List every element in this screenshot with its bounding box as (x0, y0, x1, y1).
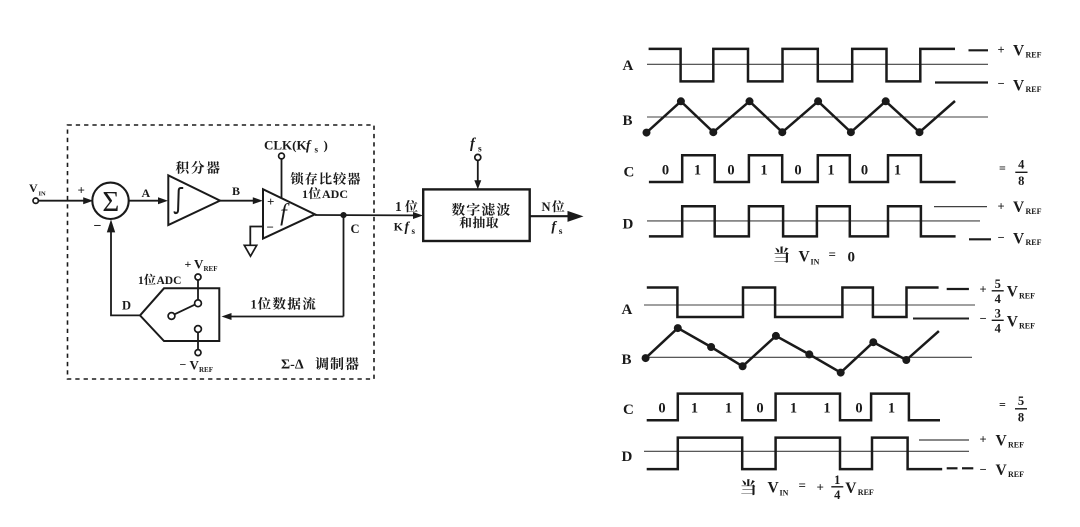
label +5/4 VREF for A2 (980, 277, 1036, 306)
trace D1 DAC output wave (649, 206, 956, 236)
caption: when VIN = 0 (774, 246, 855, 266)
trace B1 label (623, 113, 633, 129)
svg-text:1: 1 (691, 400, 698, 416)
svg-text:4: 4 (834, 488, 841, 502)
label: and decimation (he chou qu) (459, 216, 498, 228)
svg-text:1: 1 (834, 473, 840, 487)
svg-text:REF: REF (1026, 85, 1042, 94)
trace B2 integrator wave (646, 328, 939, 373)
+5/4 VREF dash for A2 (947, 288, 969, 290)
svg-text:1: 1 (138, 275, 144, 287)
svg-text:+: + (78, 183, 85, 198)
svg-text:B: B (232, 184, 240, 198)
ratio 5/8 for C2 (999, 394, 1027, 425)
label: 1-bit ADC under comparator label (302, 187, 348, 201)
+VREF line for D1 (934, 206, 987, 208)
integral sign inside U2 (175, 188, 184, 213)
svg-text:REF: REF (199, 366, 213, 374)
wire: CLK terminal to comparator (281, 159, 283, 199)
wire: fs terminal into filter box (474, 160, 481, 189)
svg-text:+: + (267, 194, 274, 209)
label: 1-bit ADC at DAC (138, 274, 181, 287)
svg-text:1: 1 (251, 297, 257, 311)
wire: feedback to DAC with arrow (222, 313, 344, 320)
svg-text:s: s (315, 145, 319, 155)
svg-text:IN: IN (39, 191, 47, 198)
+VREF terminal (195, 274, 201, 280)
trace C1 bit labels (662, 162, 901, 178)
svg-text:REF: REF (1008, 470, 1024, 479)
summing junction U1 (92, 183, 128, 219)
label -3/4 VREF for A2 (980, 306, 1036, 335)
node D label (122, 298, 131, 312)
svg-text:D: D (122, 298, 131, 312)
svg-text:−: − (980, 462, 987, 476)
svg-text:V: V (190, 357, 200, 372)
wire: comparator output to digital filter (315, 212, 423, 219)
label: 1-bit data stream (1 wei shu ju liu) (251, 297, 316, 311)
svg-text:IN: IN (780, 489, 789, 498)
trace A2 zero baseline (644, 304, 975, 306)
svg-text:0: 0 (727, 162, 734, 178)
svg-text:V: V (1013, 77, 1025, 94)
svg-text:Σ: Σ (102, 186, 119, 218)
svg-text:+: + (185, 257, 192, 271)
trace B1 integrator triangle wave (647, 101, 956, 133)
svg-text:1: 1 (827, 162, 834, 178)
trace D2 DAC output wave (647, 438, 943, 470)
svg-text:=: = (999, 397, 1006, 411)
svg-text:+: + (998, 43, 1005, 57)
svg-text:−: − (998, 76, 1005, 90)
label -VREF for D1 (998, 230, 1042, 247)
trace D2 label (622, 449, 633, 465)
svg-text:1: 1 (888, 400, 895, 416)
svg-text:s: s (412, 226, 416, 236)
-3/4 VREF line for A2 (913, 318, 969, 320)
svg-text:+: + (817, 480, 824, 495)
svg-text:REF: REF (858, 488, 874, 497)
-VREF dash for D1 (969, 238, 991, 240)
svg-text:0: 0 (794, 162, 801, 178)
wire: DAC output to summer minus input (107, 219, 140, 315)
svg-text:8: 8 (1018, 174, 1024, 188)
minus sign at summer - input (94, 219, 102, 234)
ratio 4/8 for C1 (999, 157, 1028, 188)
svg-text:0: 0 (855, 400, 862, 416)
svg-text:=: = (999, 161, 1006, 175)
switch contact pole (168, 313, 175, 320)
node B label (232, 184, 240, 198)
svg-text:ADC: ADC (322, 187, 348, 201)
fs clock terminal (475, 154, 481, 160)
svg-text:REF: REF (1026, 207, 1042, 216)
svg-text:s: s (559, 227, 563, 237)
label: digital filter (shu zi lv bo) (452, 203, 510, 216)
wire: +VREF to switch (197, 280, 199, 300)
svg-text:A: A (622, 302, 633, 318)
svg-text:+: + (980, 282, 987, 296)
label: integrator (ji fen qi) (176, 161, 220, 174)
svg-text:=: = (799, 478, 806, 493)
trace C1 bitstream wave (649, 155, 956, 182)
node C label (351, 222, 360, 236)
svg-text:3: 3 (995, 306, 1001, 320)
svg-text:1: 1 (894, 162, 901, 178)
svg-text:−: − (180, 358, 187, 372)
label 1-bit above wire (395, 199, 418, 214)
svg-text:C: C (623, 402, 634, 418)
wire: node C feedback vertical (343, 215, 345, 317)
svg-text:V: V (1013, 230, 1025, 247)
switch contact upper (195, 300, 202, 307)
dashed boundary: sigma-delta modulator box (68, 125, 375, 379)
1-bit DAC U5 outline (140, 288, 219, 341)
-VREF dash for A1 (935, 81, 988, 83)
svg-text:1: 1 (302, 187, 308, 201)
svg-text:V: V (1013, 199, 1025, 216)
svg-text:4: 4 (1018, 157, 1025, 171)
label -VREF (180, 357, 214, 374)
svg-text:B: B (623, 113, 633, 129)
wire: filter output with big arrow (530, 211, 584, 222)
clock label fs above filter (470, 136, 482, 155)
trace D1 label (623, 217, 634, 233)
svg-text:−: − (998, 230, 1005, 244)
svg-text:0: 0 (848, 249, 856, 265)
svg-text:1: 1 (790, 400, 797, 416)
trace D2 zero baseline (644, 450, 969, 452)
svg-text:=: = (829, 246, 836, 261)
trace C2 label (623, 402, 634, 418)
svg-text:−: − (267, 220, 274, 235)
svg-text:A: A (623, 58, 634, 74)
svg-text:1: 1 (694, 162, 701, 178)
svg-text:V: V (194, 256, 204, 271)
svg-text:B: B (622, 352, 632, 368)
trace B2 label (622, 352, 632, 368)
node C junction dot (340, 212, 346, 218)
svg-text:5: 5 (1018, 394, 1024, 408)
svg-text:1: 1 (760, 162, 767, 178)
trace C1 label (624, 164, 635, 180)
svg-text:K: K (394, 220, 404, 234)
svg-text:+: + (998, 199, 1005, 213)
label +VREF for D2 (980, 432, 1025, 449)
minus sign inside U3 (267, 220, 274, 235)
svg-text:0: 0 (861, 162, 868, 178)
trace B1 zero baseline (647, 116, 988, 118)
svg-text:1: 1 (395, 199, 402, 214)
svg-text:CLK(K: CLK(K (264, 138, 308, 153)
svg-text:V: V (996, 432, 1008, 449)
svg-text:): ) (324, 138, 328, 153)
label -VREF for A1 (998, 76, 1042, 94)
svg-text:1: 1 (725, 400, 732, 416)
svg-text:V: V (29, 181, 38, 195)
svg-text:REF: REF (1026, 51, 1042, 60)
latched comparator U3 triangle (263, 189, 315, 238)
svg-text:REF: REF (1019, 322, 1035, 331)
trace A1 square wave (649, 49, 955, 82)
switch lever (175, 305, 196, 315)
svg-text:REF: REF (204, 265, 218, 273)
trace A1 label (623, 58, 634, 74)
trace B1 sample dots (643, 97, 924, 136)
wire: comparator minus input to ground (250, 227, 263, 246)
switch contact lower (195, 326, 202, 333)
wire: summer to integrator (129, 197, 168, 204)
svg-text:ADC: ADC (157, 275, 182, 287)
+VREF line for D2 (919, 439, 969, 441)
svg-text:Σ-Δ: Σ-Δ (281, 358, 304, 373)
svg-text:A: A (142, 186, 151, 200)
svg-text:8: 8 (1018, 410, 1024, 424)
svg-text:+: + (980, 433, 987, 447)
svg-text:IN: IN (811, 257, 820, 266)
digital filter block U4 (423, 189, 530, 241)
svg-text:C: C (624, 164, 635, 180)
label VIN (29, 181, 46, 198)
label K fs below wire (394, 219, 416, 236)
svg-text:REF: REF (1008, 440, 1024, 449)
svg-text:V: V (799, 248, 811, 265)
trace B2 sample dots (642, 324, 911, 377)
label +VREF (185, 256, 218, 273)
label N-bit at output (542, 200, 565, 214)
plus sign at summer + input (78, 183, 85, 198)
svg-text:4: 4 (995, 321, 1002, 335)
svg-text:D: D (623, 217, 634, 233)
svg-text:s: s (478, 145, 482, 155)
svg-text:REF: REF (1026, 238, 1042, 247)
label: latched comparator (suo cun bi jiao qi) (291, 172, 361, 185)
svg-text:C: C (351, 222, 360, 236)
svg-text:V: V (1007, 284, 1019, 301)
input terminal VIN (33, 198, 38, 203)
svg-text:0: 0 (756, 400, 763, 416)
label +VREF for D1 (998, 199, 1042, 216)
latch clock symbol inside U3 (280, 201, 290, 227)
trace D1 zero baseline (647, 220, 980, 222)
ground symbol (244, 245, 256, 256)
trace A2 square wave (647, 288, 939, 318)
label: sigma-delta modulator (tiao zhi qi) (281, 357, 359, 372)
label CLK(K fs) (264, 138, 328, 155)
+VREF dash for A1 (969, 49, 989, 51)
svg-text:−: − (94, 219, 102, 234)
label -VREF for D2 (980, 462, 1025, 479)
svg-text:V: V (1013, 43, 1025, 60)
svg-text:D: D (622, 449, 633, 465)
trace A1 zero baseline (647, 63, 988, 65)
svg-text:4: 4 (995, 292, 1002, 306)
svg-text:V: V (1007, 314, 1019, 331)
svg-text:V: V (845, 480, 857, 497)
svg-text:0: 0 (658, 400, 665, 416)
svg-text:REF: REF (1019, 292, 1035, 301)
label +VREF for A1 (998, 43, 1042, 60)
svg-text:V: V (768, 480, 780, 497)
-VREF dashes for D2 (947, 467, 974, 469)
CLK input terminal (279, 153, 285, 159)
svg-text:1: 1 (823, 400, 830, 416)
wire: lower contact to -VREF (197, 332, 199, 349)
svg-text:0: 0 (662, 162, 669, 178)
trace C2 bitstream wave (647, 394, 940, 421)
svg-text:V: V (996, 462, 1008, 479)
svg-text:N: N (542, 200, 551, 214)
trace C2 bit labels (658, 400, 895, 416)
caption: when VIN = +1/4 VREF (741, 473, 874, 502)
plus sign inside U3 (267, 194, 274, 209)
node A label (142, 186, 151, 200)
wire: integrator to comparator (220, 197, 263, 204)
-VREF terminal (195, 350, 201, 356)
trace A2 label (622, 302, 633, 318)
integrator U2 triangle (168, 175, 220, 225)
label fs at output (551, 220, 562, 238)
wire: VIN input to summer (38, 197, 93, 204)
svg-text:5: 5 (995, 277, 1001, 291)
trace B2 zero baseline (643, 356, 972, 358)
svg-text:−: − (980, 311, 987, 325)
